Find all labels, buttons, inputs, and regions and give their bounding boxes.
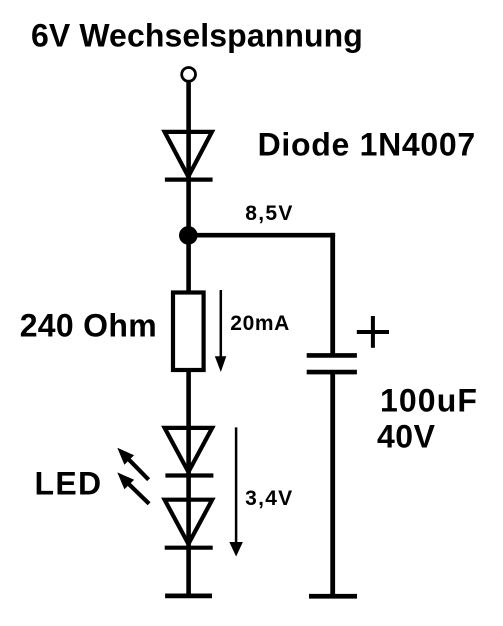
svg-text:3,4V: 3,4V [245,487,293,510]
svg-text:8,5V: 8,5V [245,202,293,225]
svg-text:Diode 1N4007: Diode 1N4007 [258,127,476,163]
svg-text:20mA: 20mA [230,312,290,335]
svg-text:6V Wechselspannung: 6V Wechselspannung [31,18,363,54]
svg-text:240 Ohm: 240 Ohm [20,307,157,343]
svg-text:100uF: 100uF [380,383,478,419]
svg-text:40V: 40V [377,419,436,455]
svg-text:LED: LED [35,465,103,501]
